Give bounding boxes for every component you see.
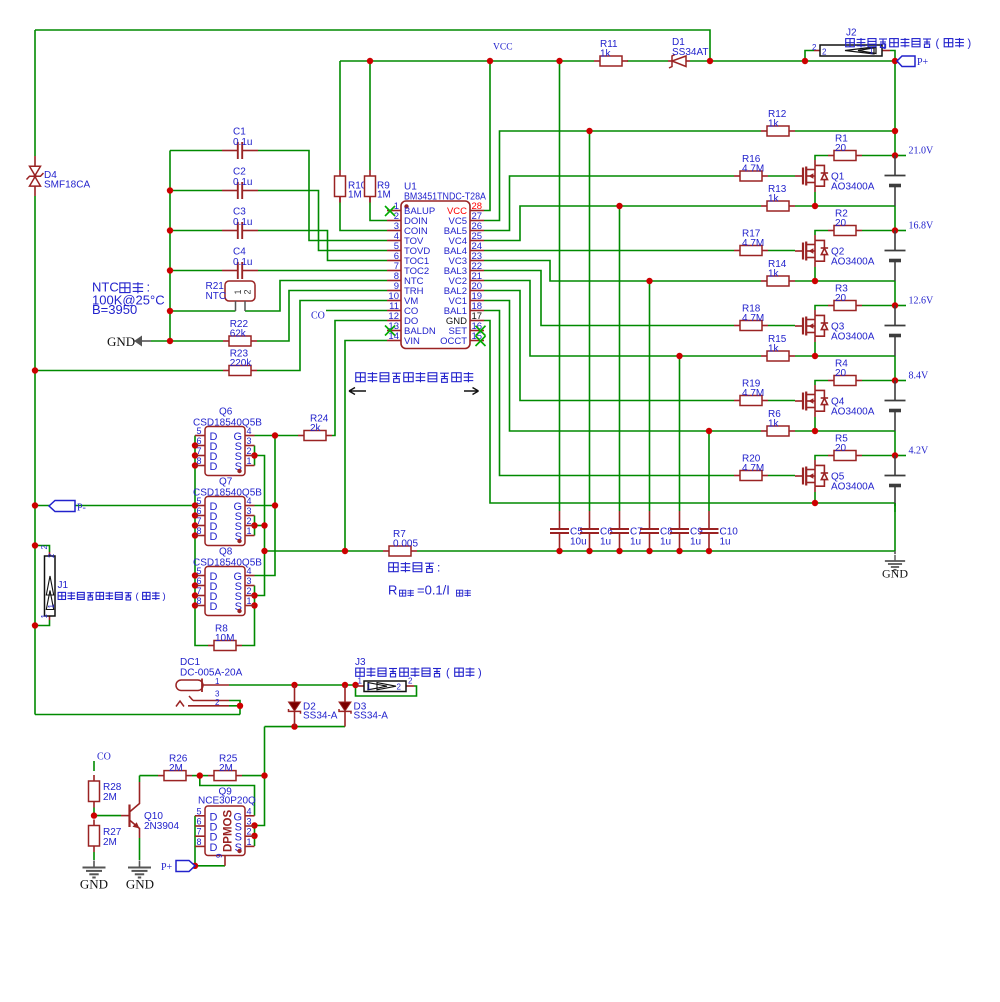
- no-connect pin13: [385, 326, 395, 336]
- svg-text:2: 2: [247, 516, 252, 526]
- wire R14 to cell: [795, 280, 895, 282]
- capacitor C3: [222, 207, 258, 240]
- transistor Q1 AO3400A: [795, 160, 875, 193]
- svg-text:7: 7: [196, 516, 201, 526]
- svg-text:2: 2: [243, 289, 253, 294]
- svg-text:2: 2: [397, 683, 402, 692]
- svg-text:P+: P+: [161, 862, 173, 873]
- svg-text:0.005: 0.005: [393, 539, 418, 550]
- svg-text:3: 3: [247, 436, 252, 446]
- wire R 20ohm to cell+: [862, 380, 895, 382]
- svg-text:1: 1: [247, 526, 252, 536]
- svg-text:6: 6: [196, 506, 201, 516]
- wire battery column segment: [894, 206, 896, 231]
- svg-text:2M: 2M: [103, 792, 117, 803]
- transistor Q10 2N3904: [121, 782, 179, 838]
- wire R12 to cell5+: [795, 130, 895, 132]
- wire C2 row to TOVD pin5: [170, 190, 222, 192]
- wire DC1 pin3 jog: [229, 701, 240, 706]
- ground power port GND: [107, 334, 151, 349]
- svg-text:VCC: VCC: [493, 43, 513, 53]
- svg-text:1u: 1u: [720, 537, 731, 548]
- svg-text:Q7: Q7: [219, 477, 233, 488]
- wire voltage tap stub: [895, 380, 906, 382]
- svg-text:16.8V: 16.8V: [909, 221, 935, 232]
- wire R15 to cell: [795, 355, 895, 357]
- svg-text:1u: 1u: [600, 537, 611, 548]
- svg-text:1: 1: [247, 596, 252, 606]
- pin 14 VIN: [387, 340, 401, 342]
- wire DO pin12 to R24: [332, 321, 387, 436]
- svg-text:R: R: [388, 583, 397, 598]
- battery cell 2: [885, 381, 906, 432]
- svg-text:=0.1/I: =0.1/I: [417, 583, 450, 598]
- battery cell 4: [885, 231, 906, 282]
- wire Q drain: [815, 381, 828, 386]
- wire BAL3 pin22 to R18 row: [484, 271, 734, 326]
- pin 21 VC2: [470, 280, 484, 282]
- no-connect pin15: [476, 336, 486, 346]
- svg-text:C2: C2: [233, 167, 246, 178]
- pin 17 GND: [470, 320, 484, 322]
- wire Q10 emitter down: [139, 838, 141, 860]
- pin 5 TOVD: [387, 250, 401, 252]
- pin 2 DOIN: [387, 220, 401, 222]
- pin 23 VC3: [470, 260, 484, 262]
- wire P- row: [35, 505, 195, 507]
- svg-text:Q6: Q6: [219, 407, 233, 418]
- svg-text:SS34-A: SS34-A: [354, 711, 389, 722]
- svg-text:J3: J3: [355, 657, 366, 668]
- svg-text:GND: GND: [126, 877, 154, 892]
- svg-text:2M: 2M: [103, 837, 117, 848]
- wire C6 column: [589, 131, 591, 511]
- label J1 chinese: [58, 592, 65, 599]
- wire VC1 pin19 to R6 row: [484, 301, 761, 432]
- resistor R23: [223, 349, 257, 376]
- svg-text:20: 20: [835, 443, 847, 454]
- wire voltage tap stub: [895, 455, 906, 457]
- svg-text:(: (: [446, 667, 450, 679]
- svg-text:1k: 1k: [768, 344, 780, 355]
- svg-text:(: (: [936, 38, 940, 50]
- pin 22 BAL3: [470, 270, 484, 272]
- wire R18 to Q3 gate: [768, 325, 795, 327]
- note NTC requirement: [92, 280, 165, 318]
- wire left rail (P- / VM net) lower: [34, 196, 36, 715]
- svg-text:AO3400A: AO3400A: [831, 257, 875, 268]
- svg-text:): ): [163, 591, 166, 602]
- svg-text:1M: 1M: [377, 190, 391, 201]
- pin 7 TOC2: [387, 270, 401, 272]
- wire R 20ohm to cell+: [862, 305, 895, 307]
- wire R10 top drop: [339, 61, 341, 170]
- svg-text:1u: 1u: [690, 537, 701, 548]
- svg-text:5: 5: [196, 566, 201, 576]
- svg-text:0.1u: 0.1u: [233, 217, 252, 228]
- svg-text:6: 6: [196, 576, 201, 586]
- wire J1 pin2: [35, 546, 50, 553]
- wire R13 to cell: [795, 205, 895, 207]
- svg-text:D: D: [210, 842, 218, 854]
- capacitor C7: [610, 511, 643, 549]
- transistor Q7 CSD18540Q5B: [193, 477, 262, 546]
- wire battery column segment: [894, 356, 896, 381]
- svg-text:4: 4: [247, 806, 252, 816]
- wire bottom row to DC1: [35, 714, 240, 716]
- svg-text:1k: 1k: [768, 419, 780, 430]
- wire C10 column: [708, 431, 710, 511]
- resistor R7 shunt: [383, 529, 418, 556]
- wire Q10 collector to R26: [140, 775, 159, 777]
- wire CO stub bottom: [93, 761, 95, 771]
- svg-text:0.1u: 0.1u: [233, 257, 252, 268]
- resistor R16: [734, 154, 768, 181]
- wire R26-R25 mid: [192, 775, 208, 777]
- wire drain bus Q6-Q8: [195, 436, 208, 646]
- svg-text:5: 5: [196, 806, 201, 816]
- wire R16 to Q1 gate: [768, 175, 795, 177]
- svg-text:8: 8: [196, 837, 201, 847]
- svg-text:1M: 1M: [348, 190, 362, 201]
- wire voltage tap stub: [895, 230, 906, 232]
- wire battery column top: [894, 61, 896, 156]
- svg-text:P+: P+: [917, 57, 929, 68]
- wire Q source: [814, 342, 816, 356]
- resistor R20: [734, 454, 768, 481]
- wire R25 right column to Q9 S: [255, 776, 265, 826]
- svg-text:): ): [478, 667, 482, 679]
- battery cell 1: [885, 456, 906, 507]
- svg-text:1: 1: [40, 614, 49, 619]
- svg-text:C1: C1: [233, 127, 246, 138]
- svg-text:4.7M: 4.7M: [742, 388, 764, 399]
- wire Q source: [814, 492, 816, 503]
- wire R10 bottom to COIN pin3: [340, 203, 387, 231]
- svg-text:Q8: Q8: [219, 547, 233, 558]
- wire D1 anode segment: [627, 60, 668, 62]
- wire Q source: [814, 267, 816, 281]
- svg-text:4.7M: 4.7M: [742, 164, 764, 175]
- diode D1 SS34AT: [668, 37, 709, 68]
- pin 19 VC1: [470, 300, 484, 302]
- svg-text:J1: J1: [58, 580, 69, 591]
- resistor R9: [365, 170, 391, 203]
- svg-text:2: 2: [247, 827, 252, 837]
- pin 25 VC4: [470, 240, 484, 242]
- wire Q source: [814, 192, 816, 206]
- wire R22 to TRH pin9: [257, 291, 387, 342]
- svg-text:1u: 1u: [630, 537, 641, 548]
- pin 13 BALDN: [387, 330, 401, 332]
- svg-text:4: 4: [247, 426, 252, 436]
- capacitor C9: [670, 511, 703, 549]
- svg-text:3: 3: [247, 506, 252, 516]
- svg-text:5: 5: [196, 496, 201, 506]
- svg-text:4: 4: [247, 496, 252, 506]
- svg-text:1: 1: [367, 683, 372, 692]
- svg-text:12.6V: 12.6V: [909, 296, 935, 307]
- capacitor C10: [700, 511, 739, 549]
- svg-text:7: 7: [196, 827, 201, 837]
- wire BAL2 pin20 to R19 row: [484, 291, 734, 401]
- pin 27 VC5: [470, 220, 484, 222]
- wire R 20ohm to cell+: [862, 455, 895, 457]
- wire R27 bottom to GND: [93, 852, 95, 860]
- svg-text:2M: 2M: [219, 763, 233, 774]
- resistor R11: [594, 39, 628, 66]
- wire Q6 gate to R24: [255, 435, 299, 437]
- svg-text:14: 14: [388, 331, 399, 342]
- svg-text:8: 8: [196, 596, 201, 606]
- svg-text:2: 2: [812, 43, 817, 52]
- svg-text:4.7M: 4.7M: [742, 463, 764, 474]
- svg-text:SS34-A: SS34-A: [303, 711, 338, 722]
- resistor R2: [828, 209, 862, 236]
- svg-text:20: 20: [835, 293, 847, 304]
- svg-text:C3: C3: [233, 207, 246, 218]
- diode D2 SS34-A: [289, 685, 338, 727]
- wire Q drain: [815, 456, 828, 461]
- pin 15 OCCT: [470, 340, 484, 342]
- resistor R12: [761, 109, 795, 136]
- svg-text:2: 2: [247, 586, 252, 596]
- wire left rail (P- / VM net) upper: [34, 30, 36, 156]
- wire C8 column: [649, 281, 651, 511]
- svg-text:1k: 1k: [768, 119, 780, 130]
- wire VCC rail: [340, 60, 594, 62]
- wire R23 row (VM net): [35, 370, 223, 372]
- wire J2 pin2 stub: [805, 51, 814, 62]
- pin 20 BAL2: [470, 290, 484, 292]
- svg-text:6: 6: [196, 436, 201, 446]
- wire BAL5 pin26 to R16 row: [484, 176, 734, 231]
- pin 3 COIN: [387, 230, 401, 232]
- svg-text:AO3400A: AO3400A: [831, 182, 875, 193]
- wire C3 row to TOC1 pin6: [170, 230, 222, 232]
- label J3 chinese: [356, 668, 365, 676]
- resistor R4: [828, 359, 862, 386]
- capacitor C5: [550, 511, 587, 549]
- svg-text:SS34AT: SS34AT: [672, 47, 709, 58]
- resistor R24: [298, 414, 332, 441]
- battery cell 5: [885, 156, 906, 207]
- wire GND bus left: [169, 151, 171, 342]
- svg-text:2M: 2M: [169, 763, 183, 774]
- wire R25 right: [242, 775, 265, 777]
- svg-text:62k: 62k: [230, 329, 247, 340]
- wire Q9 source bus right: [254, 826, 256, 847]
- port P-: [49, 501, 86, 514]
- pin 9 TRH: [387, 290, 401, 292]
- resistor R13: [761, 184, 795, 211]
- svg-text:0.1u: 0.1u: [233, 137, 252, 148]
- wire NTC row to pin8: [170, 310, 236, 312]
- wire VC2 pin21 to R15 row: [484, 281, 761, 357]
- svg-text:7: 7: [196, 446, 201, 456]
- wire base node to Q10: [94, 815, 121, 817]
- connector J1 battery contact: [40, 545, 69, 621]
- port P+ top: [897, 56, 929, 68]
- svg-text:GND: GND: [80, 877, 108, 892]
- label J2 chinese: [846, 39, 855, 47]
- svg-text:7: 7: [196, 586, 201, 596]
- wire Q source: [814, 417, 816, 431]
- wire R 20ohm to cell+: [862, 155, 895, 157]
- wire VCC to pin28: [484, 61, 490, 211]
- wire cathode row down to R25: [264, 727, 266, 776]
- svg-text:1k: 1k: [768, 194, 780, 205]
- svg-text:0.1u: 0.1u: [233, 177, 252, 188]
- battery cell 3: [885, 306, 906, 357]
- wire CO label to pin11: [326, 310, 387, 312]
- svg-text:OCCT: OCCT: [440, 336, 467, 347]
- wire top rail P+ net: [35, 30, 710, 61]
- resistor R6: [761, 409, 795, 436]
- ground GND under Q10: [126, 861, 154, 892]
- svg-text:8: 8: [196, 456, 201, 466]
- transistor Q2 AO3400A: [795, 235, 875, 268]
- capacitor C8: [640, 511, 673, 549]
- svg-text:GND: GND: [107, 334, 135, 349]
- wire Q drain: [815, 156, 828, 161]
- svg-text:AO3400A: AO3400A: [831, 407, 875, 418]
- svg-text:CO: CO: [97, 752, 111, 763]
- pin 8 NTC: [387, 280, 401, 282]
- pin 16 SET: [470, 330, 484, 332]
- svg-text:VIN: VIN: [404, 336, 420, 347]
- svg-text:1: 1: [215, 677, 220, 686]
- wire R28 to base node: [93, 808, 95, 816]
- wire C4 row to TOC2 pin7: [170, 270, 222, 272]
- svg-text:DC1: DC1: [180, 657, 200, 668]
- pin 26 BAL5: [470, 230, 484, 232]
- svg-text:20: 20: [835, 143, 847, 154]
- wire C1 row to TOV pin4: [170, 150, 222, 152]
- svg-text:D: D: [210, 531, 218, 543]
- capacitor C2: [222, 167, 258, 200]
- svg-text:9: 9: [215, 853, 224, 858]
- svg-text:4.7M: 4.7M: [742, 238, 764, 249]
- svg-text:20: 20: [835, 218, 847, 229]
- note overcurrent setting: [388, 561, 471, 598]
- svg-text:2: 2: [408, 677, 413, 686]
- svg-text:10u: 10u: [570, 537, 587, 548]
- transistor Q9 NCE30P20Q: [195, 787, 256, 866]
- svg-text:AO3400A: AO3400A: [831, 332, 875, 343]
- note differential routing: [349, 372, 479, 394]
- resistor R19: [734, 379, 768, 406]
- svg-text:C4: C4: [233, 247, 246, 258]
- wire GND row to R22: [151, 340, 223, 342]
- wire R23 to VM pin10: [257, 301, 387, 371]
- wire gate jog to Q9 pin4: [200, 776, 255, 816]
- wire VIN pin14 riser: [345, 341, 387, 552]
- diode D3 SS34-A: [339, 685, 388, 727]
- transistor Q6 CSD18540Q5B: [193, 407, 262, 476]
- no-connect pin1: [385, 206, 395, 216]
- wire R17 to Q2 gate: [768, 250, 795, 252]
- wire R19 to Q4 gate: [768, 400, 795, 402]
- pin 18 BAL1: [470, 310, 484, 312]
- resistor R25: [208, 754, 242, 781]
- svg-text:2: 2: [47, 553, 56, 558]
- resistor R22: [223, 319, 257, 346]
- svg-text:1: 1: [869, 47, 874, 56]
- wire battery column bottom to GND: [894, 503, 896, 551]
- capacitor C6: [580, 511, 613, 549]
- diode D4 TVS: [27, 156, 91, 196]
- wire VC4 pin25 to R13 row: [484, 206, 761, 241]
- svg-text:1k: 1k: [600, 49, 612, 60]
- pin 24 BAL4: [470, 250, 484, 252]
- wire J3 pin2 wrap: [356, 685, 417, 696]
- svg-text:4.7M: 4.7M: [742, 313, 764, 324]
- wire C7 column: [619, 206, 621, 511]
- resistor R27: [89, 820, 122, 853]
- svg-text:3: 3: [247, 817, 252, 827]
- wire battery column segment: [894, 431, 896, 456]
- svg-text:2: 2: [215, 698, 220, 707]
- svg-text:GND: GND: [882, 567, 908, 581]
- svg-text:6: 6: [196, 817, 201, 827]
- wire Q drain: [815, 306, 828, 311]
- svg-text:1: 1: [358, 677, 363, 686]
- connector DC1 DC-005A-20A: [176, 657, 243, 707]
- wire C9 column: [679, 356, 681, 511]
- svg-text:P-: P-: [77, 503, 86, 514]
- wire R9 top drop: [369, 61, 371, 170]
- svg-text:4: 4: [247, 566, 252, 576]
- wire source taps column: [255, 456, 265, 596]
- ground GND under R27: [80, 861, 108, 892]
- resistor R8: [208, 624, 242, 651]
- svg-text:3: 3: [247, 576, 252, 586]
- svg-text:2: 2: [822, 48, 827, 57]
- resistor R1: [828, 134, 862, 161]
- svg-text:2: 2: [40, 545, 49, 550]
- pin 10 VM: [387, 300, 401, 302]
- svg-text:2: 2: [247, 446, 252, 456]
- wire BAL1 pin18 to R20 row: [484, 311, 734, 476]
- wire Q9 drain bus: [195, 816, 225, 866]
- svg-text:8.4V: 8.4V: [909, 371, 930, 382]
- resistor R3: [828, 284, 862, 311]
- svg-text:D: D: [210, 461, 218, 473]
- svg-text:AO3400A: AO3400A: [831, 482, 875, 493]
- wire R20 to Q5 gate: [768, 475, 795, 477]
- wire voltage tap stub: [895, 305, 906, 307]
- connector J3 battery contact short: [355, 657, 414, 692]
- svg-text:NTC: NTC: [206, 291, 227, 302]
- wire VC3 pin23 to R14 row: [484, 261, 761, 282]
- no-connect pin16: [476, 326, 486, 336]
- wire Q6 source bus: [254, 446, 256, 466]
- wire DC1 pin1 row: [229, 684, 356, 686]
- port P+ bottom: [161, 861, 195, 874]
- wire battery bottom overdraw: [894, 503, 896, 512]
- svg-text:4.2V: 4.2V: [909, 446, 930, 457]
- connector J2 battery contact: [812, 28, 890, 57]
- wire Q8 source bus: [242, 586, 255, 646]
- wire Q10 collector up: [139, 776, 141, 782]
- pin 6 TOC1: [387, 260, 401, 262]
- pin 4 TOV: [387, 240, 401, 242]
- svg-text:20: 20: [835, 368, 847, 379]
- wire J1 pin1: [35, 620, 50, 626]
- svg-text:10M: 10M: [215, 633, 234, 644]
- svg-text:5: 5: [196, 426, 201, 436]
